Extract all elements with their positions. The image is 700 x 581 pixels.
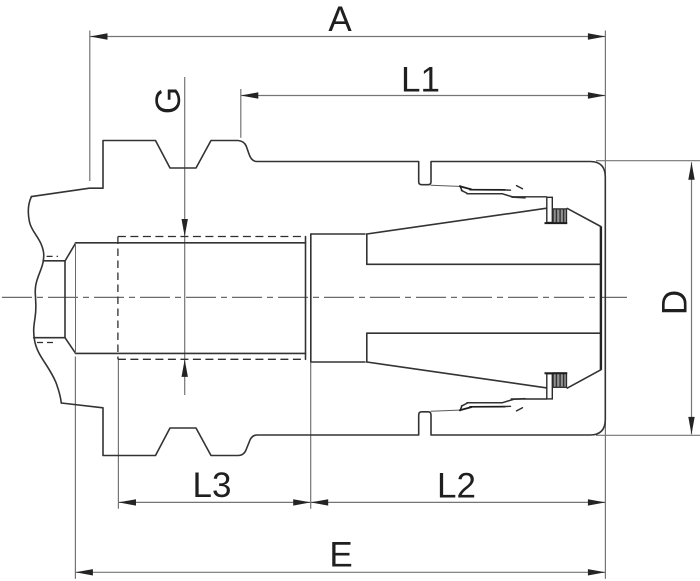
svg-text:L2: L2 bbox=[437, 467, 476, 506]
svg-text:E: E bbox=[329, 536, 352, 575]
svg-text:G: G bbox=[149, 87, 188, 114]
svg-text:L1: L1 bbox=[401, 61, 440, 100]
svg-text:D: D bbox=[656, 290, 695, 315]
svg-text:A: A bbox=[328, 0, 352, 39]
svg-text:L3: L3 bbox=[193, 466, 232, 505]
